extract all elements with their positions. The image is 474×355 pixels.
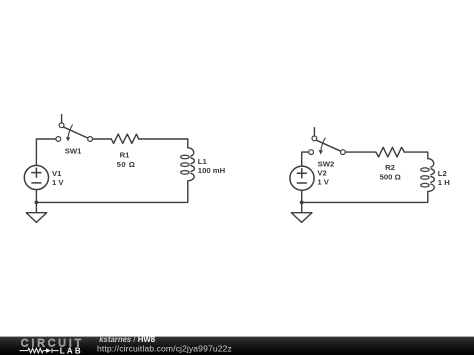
inductor L2 <box>421 159 435 192</box>
wire: V1 top lead up to node A <box>36 139 55 165</box>
inductor L1 <box>181 148 195 181</box>
ground left <box>26 213 47 223</box>
svg-text:100 mH: 100 mH <box>198 166 226 175</box>
wire: V1 bottom lead to ground <box>35 190 37 213</box>
svg-text:V1: V1 <box>52 169 62 178</box>
ground right <box>291 213 312 223</box>
svg-text:SW1: SW1 <box>65 146 82 155</box>
logo wire with resistor and diode <box>20 348 59 353</box>
svg-text:R1: R1 <box>120 151 131 160</box>
svg-text:LAB: LAB <box>60 347 83 355</box>
svg-text:L2: L2 <box>438 169 447 178</box>
svg-text:L1: L1 <box>198 157 208 166</box>
node junction right <box>300 201 304 205</box>
footer bar <box>0 337 474 355</box>
svg-text:50 Ω: 50 Ω <box>117 160 136 169</box>
svg-text:kstarnes / HW8: kstarnes / HW8 <box>99 335 156 344</box>
wire: R1 to L1 top corner <box>139 139 188 148</box>
wire: R2 to L2 top corner <box>404 152 428 159</box>
svg-text:1 V: 1 V <box>317 178 329 187</box>
wire: L2 bottom to bottom rail <box>302 192 428 203</box>
resistor R1 <box>111 134 138 143</box>
wire: L1 bottom to bottom rail <box>36 181 187 203</box>
switch SW1 <box>56 115 93 142</box>
wire: SW2 to R2 <box>345 151 376 153</box>
voltage source V1 <box>24 165 48 189</box>
node junction left <box>35 201 39 205</box>
svg-text:1 H: 1 H <box>438 178 450 187</box>
svg-text:V2: V2 <box>317 169 326 178</box>
switch SW2 <box>309 128 346 155</box>
voltage source V2 <box>290 166 314 190</box>
svg-text:500 Ω: 500 Ω <box>380 172 401 181</box>
resistor R2 <box>376 147 404 157</box>
wire: V2 bottom lead to ground <box>301 190 303 212</box>
svg-text:R2: R2 <box>385 163 395 172</box>
svg-text:1 V: 1 V <box>52 178 64 187</box>
wire: V2 top lead up to SW2 <box>302 152 309 166</box>
svg-text:http://circuitlab.com/cj2jya99: http://circuitlab.com/cj2jya997u22z <box>97 344 232 354</box>
svg-text:SW2: SW2 <box>318 160 335 169</box>
wire: SW1 to R1 <box>93 138 112 140</box>
